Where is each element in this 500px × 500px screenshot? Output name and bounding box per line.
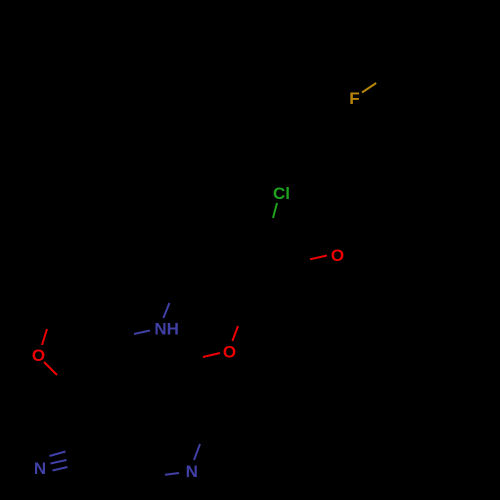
svg-text:F: F (349, 89, 359, 108)
svg-text:O: O (223, 343, 236, 362)
bond O3-C left (oxygen half) (203, 353, 220, 357)
bond N3-C left (nitrogen half) (165, 473, 179, 475)
bond N3-C up (nitrogen half) (194, 444, 200, 460)
svg-text:Cl: Cl (273, 184, 290, 203)
bond O1-C (oxygen half, to left) (310, 256, 327, 260)
svg-text:N: N (34, 459, 46, 478)
bond N1-C left (nitrogen half) (134, 331, 150, 335)
bond F1-C (fluorine half) (362, 83, 376, 93)
bond O3-C up (oxygen half) (232, 326, 238, 341)
svg-text:O: O (32, 346, 45, 365)
triple bond C#N2 line 3 (nitrogen half) (53, 467, 68, 471)
bond O2-C down (oxygen half) (44, 362, 57, 375)
bond N1-C up (nitrogen half) (163, 303, 169, 318)
bond O2-C up (oxygen half) (42, 329, 47, 345)
triple bond C#N2 line 2 (nitrogen half) (51, 460, 67, 464)
svg-text:N: N (186, 462, 198, 481)
bond Cl1-C (chlorine half) (273, 203, 277, 218)
svg-text:NH: NH (154, 320, 179, 339)
triple bond C#N2 line 1 (nitrogen half) (50, 452, 66, 457)
svg-text:O: O (331, 246, 344, 265)
